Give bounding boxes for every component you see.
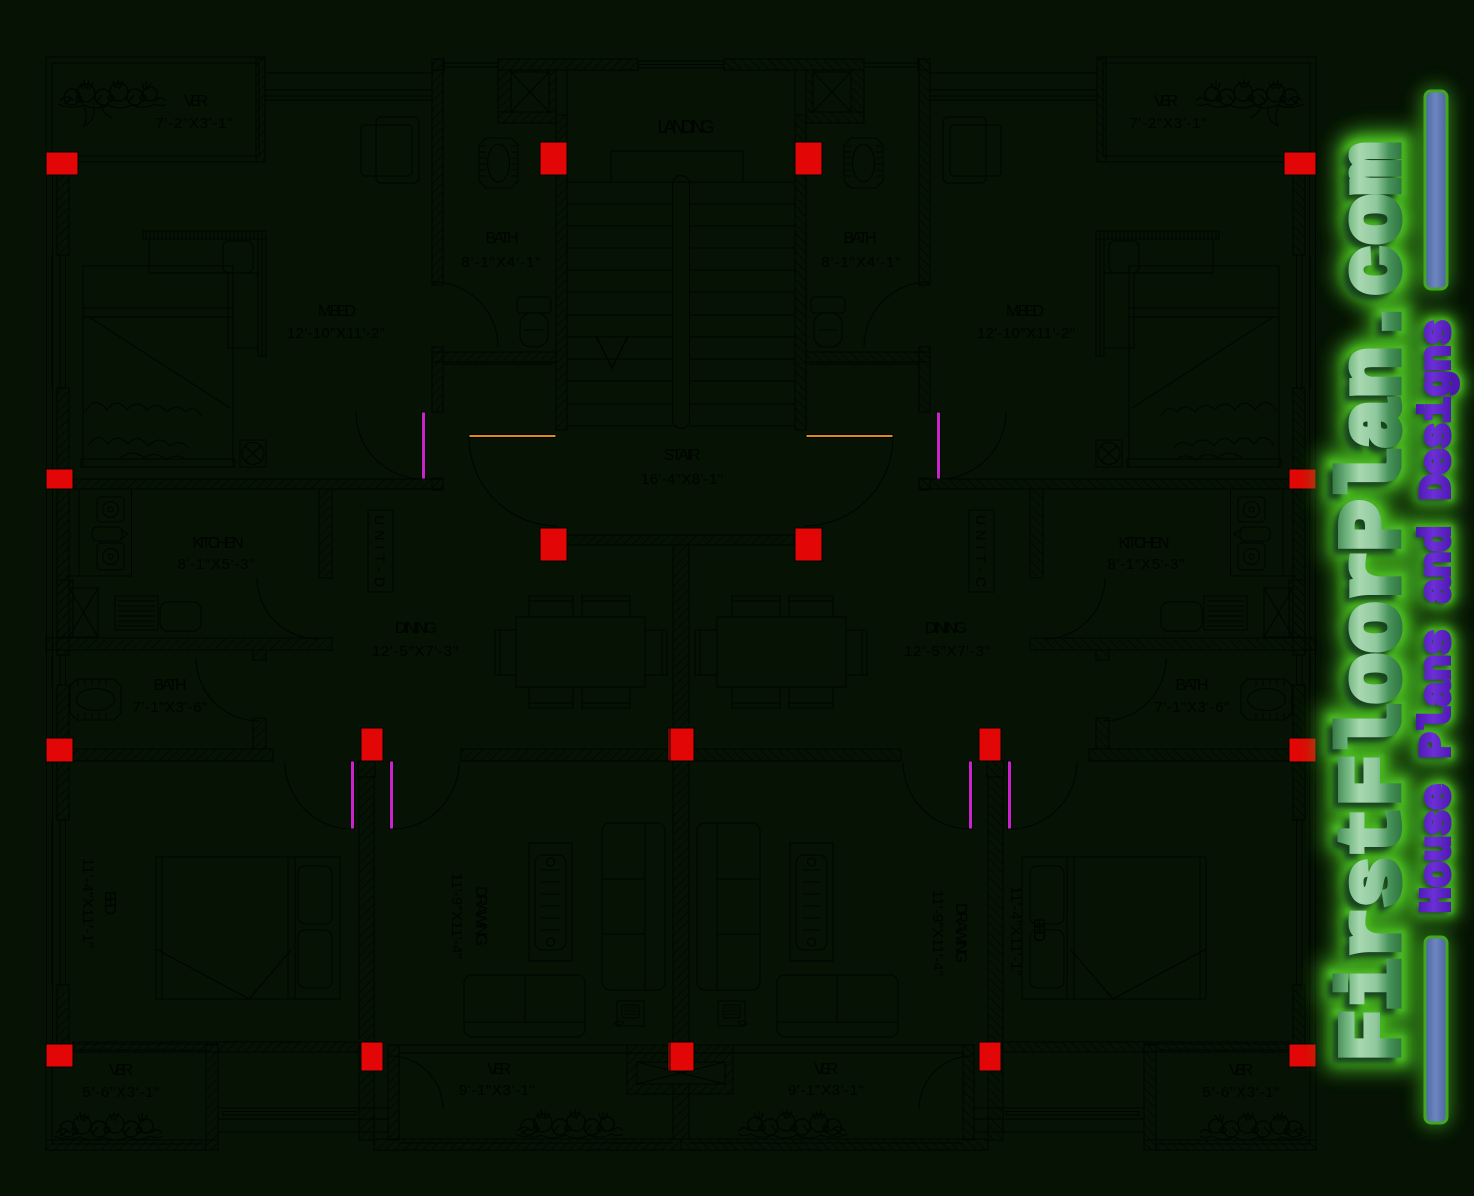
window BATH2 west [47,655,66,685]
row3 wall [73,749,273,761]
svg-text:VER: VER [487,1061,511,1078]
svg-text:7'-2"X3'-1": 7'-2"X3'-1" [1130,115,1207,132]
wall between magenta doors [358,761,375,777]
stair down arrow (left flight only) [596,336,628,368]
svg-text:KITCHEN: KITCHEN [193,535,244,552]
svg-text:BATH: BATH [844,230,877,247]
central dividing wall [673,545,689,1139]
svg-text:DINING: DINING [925,620,967,637]
svg-text:KITCHEN: KITCHEN [1119,535,1170,552]
kitchen east wall + door [319,489,332,578]
drawing room furniture [529,843,572,961]
svg-text:VER: VER [184,93,208,110]
near glow [1327,143,1462,1061]
svg-text:M.BED: M.BED [1006,303,1044,320]
svg-text:7'-2"X3'-1": 7'-2"X3'-1" [156,115,233,132]
BED door arc + magenta leaves [285,762,352,829]
stair treads left flight [567,182,673,426]
dining south wall [461,749,673,761]
kitchen south wall [46,638,332,650]
verandah top-left [46,57,265,162]
bath1 south wall [432,352,556,362]
svg-text:7'-1"X3'-6": 7'-1"X3'-6" [1155,699,1230,716]
svg-text:House Plans and Designs: House Plans and Designs [1413,320,1462,914]
svg-text:VER: VER [1229,1062,1253,1079]
shaft below kitchen with X [57,580,73,637]
svg-text:9'-1"X3'-1": 9'-1"X3'-1" [788,1082,864,1099]
svg-text:12'-10"X11'-2": 12'-10"X11'-2" [977,325,1075,342]
svg-text:5'-6"X3'-1": 5'-6"X3'-1" [1203,1084,1280,1101]
BED room bed [156,857,340,999]
X-box at central wall bottom [637,1062,725,1084]
kitchen counters [66,489,132,576]
svg-text:12'-5"X7'-3": 12'-5"X7'-3" [372,643,458,660]
ver right wall [256,59,265,162]
bottom wall [374,1139,681,1150]
svg-text:11'-9"X11'-4": 11'-9"X11'-4" [448,873,465,959]
svg-text:11'-4"X11'-1": 11'-4"X11'-1" [79,858,96,948]
svg-text:5'-6"X3'-1": 5'-6"X3'-1" [83,1084,160,1101]
landing west edge line [566,70,568,151]
UNIT box [368,510,393,592]
svg-text:8'-1"X5'-3": 8'-1"X5'-3" [178,556,255,573]
BED/DRAWING dividing wall [359,777,374,1140]
svg-text:BATH: BATH [1176,677,1209,694]
drop shadow [1321,149,1459,1067]
stair south wall [567,535,794,545]
bath1 window top [444,62,498,64]
svg-text:12'-5"X7'-3": 12'-5"X7'-3" [904,643,990,660]
bathtub BATH2 (horizontal) [70,679,121,720]
verandah bottom-middle [388,1044,673,1046]
svg-text:8'-1"X4'-1": 8'-1"X4'-1" [462,254,541,271]
red columns [46,142,692,1071]
landing platform [611,151,743,182]
bath1 door arc [433,282,498,347]
steps [218,1108,388,1132]
magenta door leaves BED/DRAWING [351,761,355,829]
svg-text:BATH: BATH [486,230,519,247]
landing window top (half, mirrored) [638,60,681,62]
door leaves + columns overlay (mirrored) [46,142,692,1071]
blue bars [1425,91,1447,289]
svg-text:VER: VER [814,1061,838,1078]
magenta door leaf M.BED [422,412,426,479]
svg-text:LANDING: LANDING [658,117,715,137]
svg-text:BATH: BATH [154,677,187,694]
room labels [79,93,1280,1101]
shaft left/bottom walls + X box [498,70,511,112]
bathtub BATH1 [479,138,518,188]
M.BED south wall [66,479,443,489]
svg-text:8'-1"X5'-3": 8'-1"X5'-3" [1108,556,1185,573]
ver bottom wall [46,155,256,157]
toilet BATH1 [517,297,551,313]
orange entry door leaf [469,435,556,438]
M.BED furniture: dresser + bed [143,231,266,239]
svg-text:DINING: DINING [395,620,437,637]
svg-text:8'-1"X4'-1": 8'-1"X4'-1" [822,254,901,271]
svg-text:9'-1"X3'-1": 9'-1"X3'-1" [459,1082,535,1099]
M.BED north window band [265,72,432,74]
svg-text:FirstFloorPlan.com: FirstFloorPlan.com [1327,143,1424,1061]
bath2 east wall stubs + door [253,650,266,660]
mid glow [1327,143,1462,1061]
M.BED door arc [356,412,423,479]
svg-text:VER: VER [109,1062,133,1079]
svg-text:11'-9"X11'-4": 11'-9"X11'-4" [929,890,946,976]
svg-text:16'-4"X8'-1": 16'-4"X8'-1" [641,471,723,488]
svg-text:DRAWING: DRAWING [952,903,969,963]
svg-text:BED: BED [101,891,118,915]
wall M.BED east / BATH1 west [432,59,443,285]
window BED west [47,820,66,985]
watermark [1321,88,1462,1126]
plants top-left verandah [58,79,166,108]
svg-text:11'-4"X11'-1": 11'-4"X11'-1" [1007,886,1024,976]
entry door arc [469,437,558,526]
svg-text:STAIR: STAIR [664,447,701,464]
BED south wall band [73,1042,359,1052]
svg-text:BED: BED [1030,918,1047,942]
svg-text:VER: VER [1154,93,1178,110]
dining table set [516,617,645,687]
svg-text:12'-10"X11'-2": 12'-10"X11'-2" [287,325,385,342]
window M.BED west [47,255,66,388]
svg-text:DRAWING: DRAWING [472,886,489,946]
central bottom wall block [627,1045,733,1094]
svg-text:7'-1"X3'-6": 7'-1"X3'-6" [133,699,208,716]
svg-text:M.BED: M.BED [318,303,356,320]
stair west wall [556,115,567,430]
left outer wall hatched segments [57,175,69,255]
top wall hatched (bath + shaft) [432,59,444,70]
verandah bottom-left [46,1044,218,1150]
M.BED side table (two rounded squares) [376,117,419,183]
central shared elements [567,151,794,1139]
stair handrail [673,176,690,429]
outer soft glow [1327,88,1462,1126]
